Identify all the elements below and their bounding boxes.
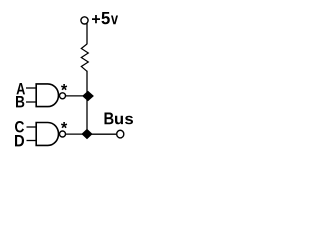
label A xyxy=(16,83,25,94)
open-collector marker * for U1 xyxy=(61,84,67,90)
wire U2 output to bus xyxy=(66,133,87,135)
NAND gate U2 output bubble xyxy=(60,131,66,137)
junction node U1/bus xyxy=(83,91,94,100)
label B xyxy=(16,96,24,107)
label Bus xyxy=(104,113,132,125)
wire bus output xyxy=(87,133,116,135)
label D xyxy=(15,135,24,146)
open-collector marker * for U2 xyxy=(61,122,67,128)
wire input B xyxy=(26,101,37,103)
NAND gate U1 body xyxy=(36,84,58,107)
wire U1 output to bus xyxy=(66,95,87,97)
junction node U2/bus xyxy=(82,129,92,138)
NAND gate U2 body xyxy=(36,123,58,146)
wire input A xyxy=(26,87,37,89)
label +5v xyxy=(92,12,118,24)
label C xyxy=(15,121,24,132)
wire bus rail vertical xyxy=(86,71,88,134)
wire from +5v terminal to resistor xyxy=(86,23,88,44)
terminal +5v (open circle) xyxy=(81,17,88,24)
resistor R1 pull-up xyxy=(81,44,88,71)
wire input D xyxy=(27,140,37,142)
terminal Bus (open circle) xyxy=(117,130,124,138)
wire input C xyxy=(27,126,37,128)
NAND gate U1 output bubble xyxy=(60,93,66,99)
